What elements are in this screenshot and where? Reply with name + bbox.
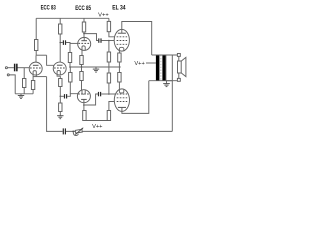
node plate2 branch [59, 42, 61, 44]
node cathode rail [81, 66, 83, 68]
resistor Rk3 (cathode triode3) [80, 56, 83, 65]
svg-text:ECC 85: ECC 85 [75, 5, 91, 12]
svg-text:V++: V++ [98, 12, 109, 18]
speaker terminal top [177, 54, 180, 57]
svg-text:ECC 83: ECC 83 [41, 5, 56, 12]
wire R1 to plate node [35, 51, 37, 56]
wire R10 to g2 lower [109, 102, 116, 111]
wire plate3 stem [83, 38, 85, 41]
wire ground rail left [15, 93, 33, 95]
resistor R11 (grid leak triode4) [69, 73, 72, 83]
wire terminals to speaker [178, 56, 180, 61]
capacitor C1 input [14, 64, 16, 72]
wire plate lower to transformer [122, 81, 149, 114]
capacitor C3 [98, 38, 99, 42]
wire cathode upper to Rk5 [118, 51, 120, 53]
resistor Rk1 (cathode triode1) [31, 81, 34, 90]
triode V3 (ECC85 a) [78, 37, 91, 50]
wire rail end drop to R4 [108, 18, 110, 21]
node plate3 [83, 33, 85, 35]
wire plate3 branch right [84, 34, 98, 41]
wire plate4 branch to C5 [84, 94, 98, 105]
ground symbol left [20, 94, 22, 96]
resistor R1 (plate triode1) [35, 40, 38, 51]
speaker terminal bottom [177, 78, 180, 81]
wire plate1 lead [35, 55, 37, 62]
resistor Rk5 (cathode EL34 upper) [118, 53, 121, 62]
wire Rk4 to cathode4 [81, 81, 84, 90]
resistor R10 (screen EL34 lower) [107, 111, 110, 121]
wire plate2 branch to C2 [60, 42, 63, 44]
wire top V++ rail [36, 17, 109, 19]
resistor Rg1 (grid leak) [23, 79, 26, 88]
wire R3 to plate3 [83, 32, 85, 38]
speaker LS1 [178, 61, 182, 73]
wire Rk2 to node [59, 87, 61, 97]
wire feedback riser right [171, 81, 173, 132]
wire plate lower stem [121, 107, 123, 111]
wire Rk3 to rail [81, 65, 83, 68]
wire cathode1 down to Rk1 [32, 77, 34, 81]
capacitor C2 [63, 40, 64, 45]
transformer secondary bar [162, 55, 166, 81]
wire R5 to mid rail [69, 63, 71, 68]
wire plate upper to transformer [122, 22, 152, 56]
wire C4 to grid4 [67, 94, 78, 97]
wire transformer top to speaker [152, 54, 178, 56]
terminal input1 [5, 67, 7, 69]
wire node to C4 [60, 95, 64, 97]
wire rail drop to R3 [83, 18, 85, 22]
pentode EL34 lower [114, 89, 129, 112]
ground symbol transformer [166, 81, 168, 84]
svg-text:EL 34: EL 34 [112, 5, 126, 12]
wire Rg1 to ground rail [23, 88, 25, 94]
wire R9 to bottom rail [83, 120, 85, 122]
potentiometer P1 [72, 131, 74, 133]
resistor R6 (grid leak EL34 upper) [107, 52, 110, 62]
resistor R7 (to ground) [59, 103, 62, 112]
triode V2 (ECC83 b phase splitter) [53, 62, 66, 75]
transformer core [160, 55, 162, 81]
wire rail drop to R2 [59, 18, 61, 24]
wire plate4 down and branch [83, 103, 85, 111]
wire Rk6 to cathode lower [118, 82, 120, 89]
node g1 [108, 40, 110, 42]
wire input2 to ground rail [9, 75, 15, 94]
triode V1 (ECC83 a) [29, 62, 42, 75]
resistor R5 (grid leak triode3) [68, 53, 71, 63]
node rail left [69, 66, 71, 68]
resistor Rk4 (cathode triode4) [80, 72, 83, 81]
resistor R3 (plate triode3) [82, 22, 85, 32]
wire to grid3 [70, 42, 78, 44]
ground symbol under R7 [57, 115, 63, 117]
node g1 lower [108, 93, 110, 95]
wire cathode2 join [57, 75, 60, 79]
wire transformer bottom to speaker [149, 80, 178, 82]
wire C5 to EL34 lower g1 [101, 93, 115, 95]
resistor Rk2 (cathode triode2) [59, 79, 62, 87]
transformer secondary box [166, 55, 172, 81]
terminal input2 [7, 74, 9, 76]
node cathode2 tap [60, 96, 62, 98]
wire cathode1 to feedback riser [33, 76, 47, 78]
resistor R2 (plate triode2) [59, 24, 62, 34]
wire feedback riser left [46, 77, 48, 132]
node plate4 [83, 104, 85, 106]
resistor R8 (grid leak EL34 lower) [107, 73, 110, 83]
bottom V++ rail [84, 120, 109, 122]
wire C3 to EL34 g1 [102, 40, 116, 42]
wire Rk1 to ground rail [32, 90, 34, 94]
triode V4 (ECC85 b) [77, 90, 90, 103]
pentode EL34 upper [114, 29, 129, 51]
wire feedback left segment [47, 130, 63, 132]
wire rail drop to R1 [35, 18, 37, 39]
wire cathode1 legs [32, 75, 34, 77]
wire plate upper stem [121, 29, 123, 33]
capacitor C6 feedback [63, 128, 64, 134]
wire feedback bottom line [66, 130, 172, 132]
resistor R4 (screen EL34 upper) [107, 21, 110, 31]
wire R2 to plate2 [59, 34, 61, 62]
wire V++ tap to transformer [146, 62, 156, 64]
wire g1 node down to R6 [108, 41, 110, 53]
wire C2 to grid3 node [66, 43, 70, 53]
wire R6 to mid rail [108, 62, 110, 67]
wire cathode3 to Rk3 [81, 50, 83, 55]
capacitor C4 [64, 94, 65, 98]
svg-text:V++: V++ [134, 61, 144, 67]
wire Rk5 to rail [118, 62, 120, 67]
capacitor C5 [98, 92, 99, 96]
wire input to grid1 [18, 67, 30, 69]
mid ground rail [70, 66, 121, 68]
svg-text:V++: V++ [92, 124, 102, 130]
wire R4 to g2 [109, 32, 116, 37]
wire plate4 stem [83, 99, 85, 102]
resistor Rk6 (cathode EL34 lower) [118, 73, 121, 83]
wire plate1 node branch right [36, 54, 46, 56]
transformer T1 primary [156, 55, 160, 81]
ground symbol mid rail [95, 67, 97, 69]
wire grid1 down to grid leak [23, 68, 25, 79]
wire coupling plate1 to grid2 [47, 55, 55, 65]
resistor R9 (plate triode4) [83, 111, 86, 121]
